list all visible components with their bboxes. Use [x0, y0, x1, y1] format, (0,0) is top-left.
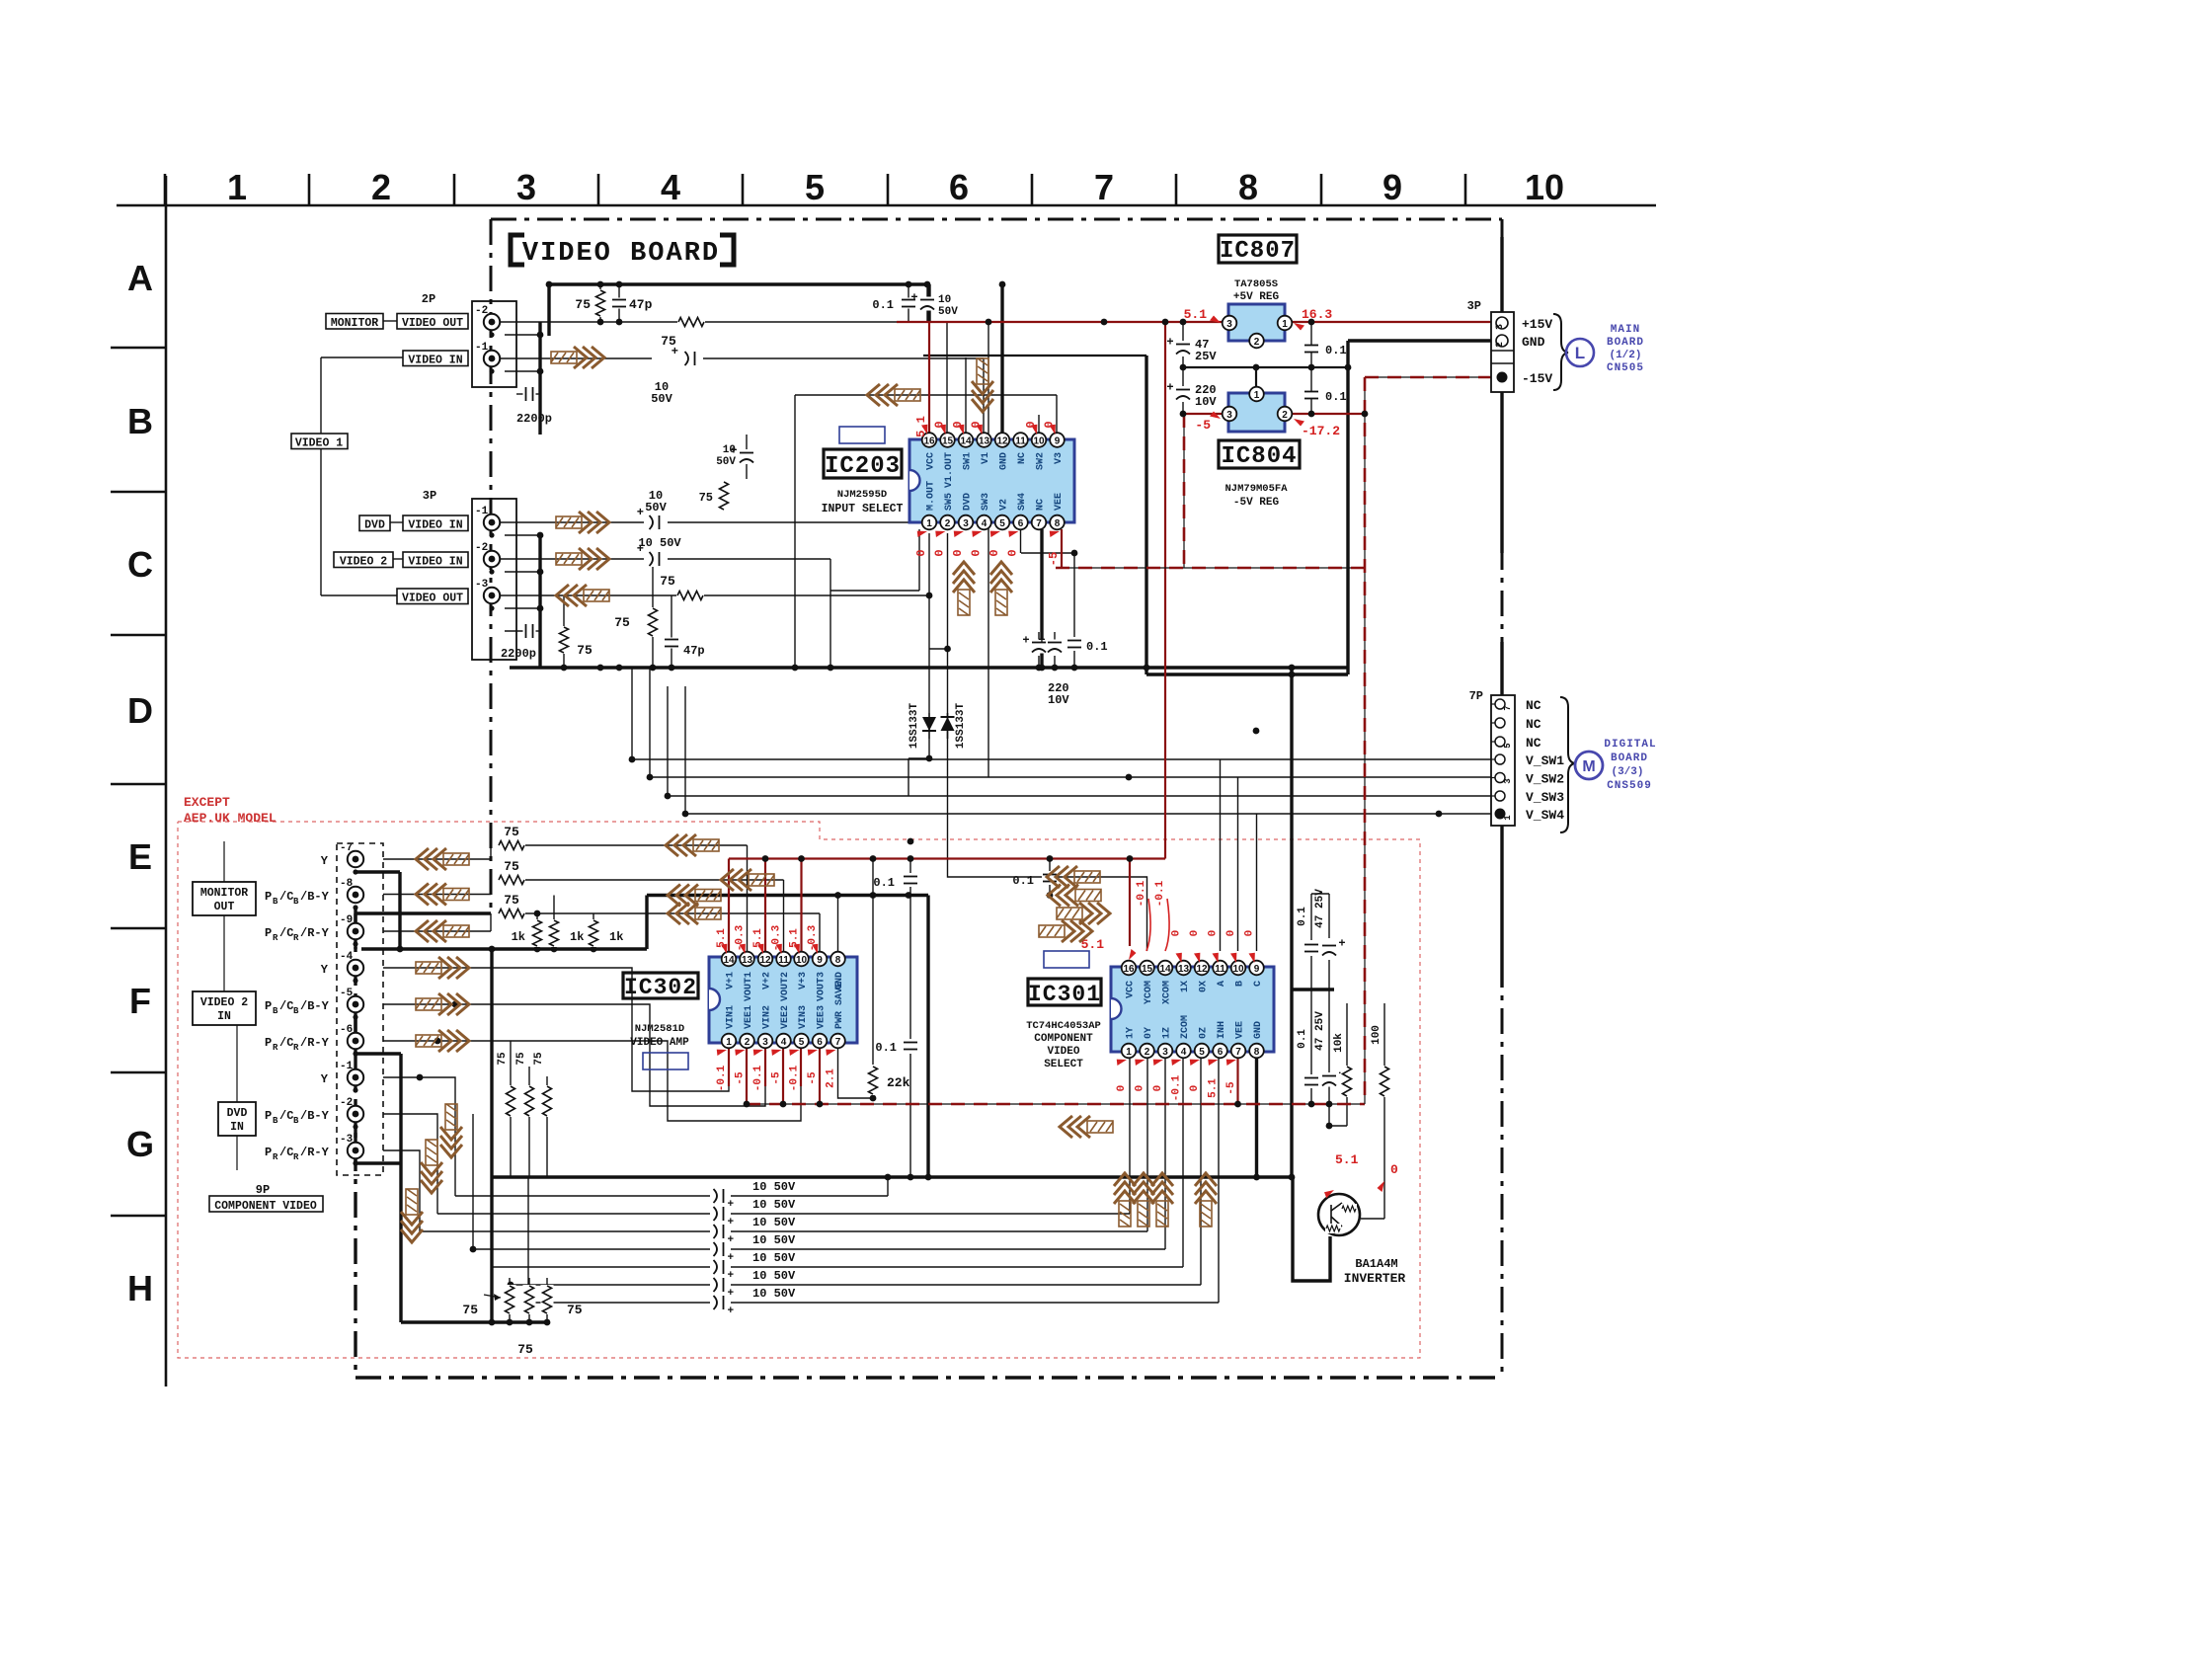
svg-text:5: 5 [1199, 1047, 1205, 1058]
svg-text:10 50V: 10 50V [752, 1198, 796, 1212]
thick x1308 drop [1290, 668, 1293, 1177]
svg-text:Y: Y [321, 854, 329, 868]
svg-text:1k: 1k [570, 930, 584, 944]
red 5.1 bus vertical x1180 [1164, 322, 1166, 859]
svg-text:C: C [127, 544, 153, 585]
resistor 75 (A4) [594, 289, 607, 317]
resistor 75 B4 [718, 481, 731, 511]
signal arrow video in [551, 347, 604, 368]
svg-text:V_SW2: V_SW2 [1526, 772, 1564, 787]
svg-text:BA1A4M: BA1A4M [1355, 1257, 1397, 1271]
resistor 75 x661 [647, 607, 660, 637]
svg-text:V_SW1: V_SW1 [1526, 753, 1564, 768]
wire 0.1 caps x922 [909, 859, 911, 874]
signal arrow IC203 left [867, 384, 920, 406]
signal arrow video out C [556, 585, 609, 606]
IC203 pins bottom row 1-8 [922, 515, 937, 530]
svg-text:NC: NC [1017, 452, 1028, 464]
wire IC203 pin feeds top [946, 322, 948, 433]
svg-text:IC302: IC302 [624, 975, 697, 1000]
svg-text:0.1: 0.1 [1297, 907, 1308, 926]
svg-text:11: 11 [778, 955, 789, 966]
capacitor 0.1 IC302 bottom [903, 1041, 918, 1052]
svg-text:75: 75 [699, 491, 713, 505]
svg-text:6: 6 [1018, 518, 1024, 529]
jack dvd video in [484, 515, 500, 530]
svg-text:-7: -7 [340, 842, 353, 854]
svg-text:2: 2 [1282, 410, 1288, 421]
wire monitor-videoout label link [383, 320, 397, 322]
svg-text:4: 4 [661, 167, 680, 207]
svg-text:NJM2581D: NJM2581D [635, 1023, 684, 1035]
svg-text:0: 0 [933, 549, 947, 556]
IC301 pins bottom row 1-8 [1122, 1044, 1137, 1059]
wire D-region bus 3 V_SW3 [668, 686, 1497, 796]
video board border left lower [354, 913, 356, 1378]
label VIDEO OUT box C [397, 589, 468, 604]
svg-text:VIDEO AMP: VIDEO AMP [630, 1037, 689, 1049]
IC301 label box [1028, 979, 1101, 1005]
svg-text:VEE2: VEE2 [780, 1005, 791, 1029]
svg-text:10 50V: 10 50V [752, 1269, 796, 1283]
maroon -5 dashed wire y575 [1056, 567, 1365, 569]
svg-text:1SS133T: 1SS133T [908, 703, 920, 750]
svg-text:/C: /C [279, 926, 293, 940]
IC301 component video select IC body [1111, 967, 1274, 1052]
svg-text:0.1: 0.1 [873, 876, 895, 890]
wire long vertical x1001 [987, 322, 989, 777]
signal arrow thick gnd run [668, 885, 721, 907]
svg-text:SW3: SW3 [981, 493, 991, 511]
svg-text:75: 75 [462, 1303, 478, 1317]
right column capacitor 47 25V lower [1321, 1073, 1337, 1087]
svg-text:COMPONENT: COMPONENT [1034, 1033, 1093, 1045]
maroon IC203 pin8 -5 [1061, 529, 1063, 568]
signal arrows dvd in rows vertical [421, 1140, 442, 1193]
signal arrow IC203 V1 feed [972, 358, 993, 412]
svg-text:R: R [293, 1043, 299, 1053]
svg-text:-6: -6 [340, 1024, 353, 1036]
svg-text:B: B [273, 1006, 278, 1016]
thick 3P connector stems [1500, 237, 1503, 312]
svg-text:P: P [265, 1146, 272, 1159]
IC203 pins top row 16-9 [922, 433, 937, 447]
svg-text:6: 6 [949, 167, 969, 207]
svg-text:-5: -5 [340, 988, 354, 999]
svg-text:0.1: 0.1 [1325, 390, 1347, 404]
svg-text:10k: 10k [1333, 1033, 1345, 1053]
svg-text:/C: /C [279, 1146, 293, 1159]
svg-text:-15V: -15V [1522, 371, 1552, 386]
svg-text:50V: 50V [651, 392, 672, 406]
red VCC drop IC301 x1144 [1129, 859, 1131, 947]
svg-text:5.1: 5.1 [1184, 307, 1208, 322]
svg-text:8: 8 [835, 955, 841, 966]
component video group link lines [223, 841, 225, 882]
svg-text:10: 10 [1232, 964, 1244, 975]
svg-text:/R-Y: /R-Y [300, 1146, 330, 1159]
svg-text:GND: GND [999, 452, 1010, 470]
svg-text:IC804: IC804 [1221, 443, 1297, 470]
IC301 aux rect [1044, 951, 1089, 968]
jack component video -4 [348, 960, 363, 976]
svg-text:-5: -5 [807, 1071, 819, 1085]
svg-text:2: 2 [745, 1037, 750, 1048]
wire video2 in rows F [383, 968, 729, 1091]
IC301 pins top row 16-9 [1122, 961, 1137, 976]
svg-text:+5V REG: +5V REG [1233, 291, 1280, 303]
svg-text:R: R [273, 933, 278, 943]
svg-text:7: 7 [835, 1037, 841, 1048]
EXCEPT AEP.UK MODEL region border [178, 822, 1420, 1358]
capacitor 47p x680 [664, 638, 679, 649]
svg-text:+: + [1038, 634, 1045, 648]
svg-text:VCC: VCC [1126, 981, 1137, 998]
wire video1 net [321, 356, 403, 358]
svg-text:3: 3 [1503, 778, 1513, 783]
CNS509 pin V_SW4 [1495, 809, 1506, 820]
svg-text:D: D [127, 690, 153, 731]
video board border jog [355, 911, 491, 914]
capacitor 2200p (C3) [523, 623, 536, 639]
svg-text:-3: -3 [475, 579, 489, 591]
svg-text:0.1: 0.1 [875, 1041, 897, 1055]
svg-text:DVD: DVD [963, 493, 974, 511]
svg-text:15: 15 [1142, 964, 1153, 975]
capacitor 47 25V (IC807 in) [1175, 342, 1191, 356]
jack component video -1 [348, 1069, 363, 1085]
svg-text:DVD: DVD [364, 519, 385, 532]
resistor 75 video out row [676, 590, 704, 602]
label VIDEO 2 box [334, 552, 393, 568]
svg-text:10: 10 [1525, 167, 1564, 207]
wire 0.1 cap x1063 [1049, 859, 1051, 872]
svg-text:-4: -4 [340, 951, 354, 963]
svg-text:VIDEO 1: VIDEO 1 [295, 437, 343, 450]
signal arrows monitor out rows [416, 848, 469, 870]
svg-text:10V: 10V [1195, 395, 1217, 409]
svg-text:-1: -1 [475, 506, 489, 517]
svg-text:B: B [127, 401, 153, 441]
wire caps to bus top [908, 284, 909, 322]
svg-text:10 50V: 10 50V [752, 1233, 796, 1247]
svg-text:5: 5 [799, 1037, 805, 1048]
svg-text:6: 6 [817, 1037, 823, 1048]
svg-text:-8: -8 [340, 878, 354, 890]
svg-text:-5: -5 [771, 1071, 783, 1085]
right column capacitor 47 25V upper [1321, 943, 1337, 957]
svg-text:0: 0 [1390, 1162, 1398, 1177]
svg-text:0Z: 0Z [1199, 1027, 1210, 1039]
svg-text:0: 0 [1006, 549, 1020, 556]
svg-text:B: B [273, 1116, 278, 1126]
svg-text:CN505: CN505 [1607, 362, 1644, 374]
svg-text:+: + [728, 1252, 735, 1264]
ruler column ticks [164, 174, 167, 205]
connector CN monitor 2P box [472, 301, 516, 387]
svg-text:VOUT3: VOUT3 [817, 972, 828, 1001]
svg-text:-17.2: -17.2 [1302, 424, 1340, 438]
svg-text:9: 9 [1254, 964, 1260, 975]
IC804 pin1 link [1255, 367, 1257, 387]
svg-text:10 50V: 10 50V [752, 1180, 796, 1194]
svg-text:47 25V: 47 25V [1314, 889, 1326, 928]
svg-text:(3/3): (3/3) [1611, 766, 1643, 778]
svg-text:1: 1 [227, 167, 247, 207]
label VIDEO OUT box [397, 314, 468, 330]
svg-text:9: 9 [817, 955, 823, 966]
wire video2 row [500, 558, 644, 560]
svg-text:VEE1: VEE1 [744, 1005, 754, 1029]
svg-text:75: 75 [517, 1342, 533, 1357]
svg-text:EXCEPT: EXCEPT [184, 795, 230, 810]
svg-text:1k: 1k [609, 930, 623, 944]
wire monitor video out row [500, 321, 677, 323]
svg-text:MAIN: MAIN [1611, 324, 1640, 336]
resistor 75 H x3 [504, 1285, 516, 1314]
svg-text:P: P [265, 926, 272, 940]
main board L circle [1566, 339, 1594, 366]
thick y683 link [1146, 673, 1348, 675]
wire 220uF/0.1 caps above bus [1038, 632, 1040, 640]
wire IC302 pin7 to 22k [838, 1049, 874, 1098]
svg-text:0.1: 0.1 [1086, 640, 1108, 654]
svg-text:75: 75 [575, 297, 591, 312]
thick IC203 gnd pin12 [1000, 284, 1003, 433]
svg-text:1: 1 [926, 518, 932, 529]
svg-text:+: + [1166, 336, 1173, 350]
electrolytic caps 10 50V H rows [714, 1188, 727, 1204]
svg-text:/B-Y: /B-Y [300, 1109, 330, 1123]
wire IC203 bottom pin stubs [918, 529, 920, 591]
signal arrow dvd in [556, 512, 609, 533]
svg-text:V_SW4: V_SW4 [1526, 808, 1564, 823]
svg-text:75: 75 [504, 893, 519, 908]
jack video out C [484, 588, 500, 603]
svg-text:VIN2: VIN2 [762, 1005, 773, 1029]
wire video in row [500, 357, 652, 359]
CNS509 brace [1560, 697, 1575, 832]
svg-text:12: 12 [759, 955, 771, 966]
svg-text:B: B [293, 1116, 299, 1126]
wire dvd-videoin label link [390, 521, 403, 523]
svg-text:9: 9 [1382, 167, 1402, 207]
label VIDEO 2 IN box [193, 991, 256, 1025]
svg-text:50V: 50V [716, 456, 736, 468]
svg-text:10V: 10V [1048, 693, 1069, 707]
svg-text:10: 10 [1033, 436, 1045, 447]
svg-text:14: 14 [1159, 964, 1171, 975]
IC807 +5V regulator body [1228, 304, 1285, 341]
svg-text:IN: IN [217, 1010, 231, 1023]
svg-text:IC203: IC203 [825, 453, 901, 480]
svg-text:IC807: IC807 [1220, 238, 1296, 265]
svg-text:11: 11 [1215, 964, 1225, 975]
svg-text:10: 10 [723, 444, 736, 456]
svg-text:-2: -2 [475, 305, 488, 317]
resistor 1k x3 [531, 919, 544, 947]
video board border right [1501, 219, 1504, 1378]
jack component video -9 [348, 923, 363, 939]
svg-text:47 25V: 47 25V [1314, 1011, 1326, 1051]
svg-text:13: 13 [742, 955, 753, 966]
svg-text:0: 0 [1225, 930, 1237, 937]
right column capacitor 0.1 upper [1303, 943, 1319, 954]
svg-text:IC301: IC301 [1028, 982, 1101, 1007]
svg-text:NC: NC [1526, 698, 1541, 713]
svg-text:V1.OUT: V1.OUT [944, 452, 955, 488]
svg-text:5: 5 [999, 518, 1005, 529]
gnd bus mid y676 [510, 666, 1347, 669]
wire dvd row [500, 521, 644, 523]
wire video out row C [500, 594, 676, 596]
svg-text:1: 1 [1126, 1047, 1132, 1058]
IC807 label box [1219, 235, 1297, 263]
signal arrow video2 in [556, 548, 609, 570]
svg-text:3: 3 [1162, 1047, 1168, 1058]
signal arrows below IC301 [1114, 1173, 1136, 1227]
capacitor 10 50V (B4) [685, 351, 698, 366]
svg-text:MONITOR: MONITOR [331, 317, 378, 330]
diode D202 1SS133T [947, 713, 949, 739]
svg-text:3: 3 [516, 167, 536, 207]
wire 75 resistor drop x661 [652, 559, 654, 668]
svg-text:SW5: SW5 [944, 493, 955, 511]
svg-text:2200p: 2200p [501, 647, 536, 661]
svg-text:/R-Y: /R-Y [300, 1036, 330, 1050]
svg-text:47p: 47p [629, 297, 653, 312]
svg-text:1k: 1k [512, 930, 525, 944]
svg-text:0: 0 [1189, 1085, 1201, 1092]
wire D-region bus 4 V_SW4 [685, 686, 1497, 814]
svg-text:ZCOM: ZCOM [1180, 1015, 1191, 1039]
label MONITOR OUT box [193, 882, 256, 915]
svg-text:PWR SAVE: PWR SAVE [834, 982, 845, 1029]
svg-text:8: 8 [1254, 1047, 1260, 1058]
IC302 pins top row 14-8 [722, 952, 737, 967]
svg-text:VIDEO IN: VIDEO IN [408, 519, 462, 532]
label COMPONENT VIDEO box [209, 1196, 323, 1212]
svg-text:-0.1: -0.1 [1154, 880, 1166, 907]
svg-text:0.1: 0.1 [1297, 1029, 1308, 1049]
svg-text:75: 75 [567, 1303, 583, 1317]
wire D-region bus 1 V_SW1 [632, 668, 1497, 759]
svg-text:+: + [728, 1288, 735, 1300]
svg-text:NC: NC [1526, 736, 1541, 751]
svg-text:+: + [1022, 634, 1029, 648]
svg-text:/B-Y: /B-Y [300, 890, 330, 904]
svg-text:4: 4 [982, 518, 987, 529]
wire monitor out rows E [383, 858, 491, 860]
red IC302 bottom stubs [728, 1049, 730, 1086]
svg-text:V+1: V+1 [726, 972, 737, 990]
svg-text:VIN3: VIN3 [798, 1005, 809, 1029]
svg-text:0: 0 [914, 549, 928, 556]
svg-text:VOUT2: VOUT2 [780, 972, 791, 1001]
svg-text:2P: 2P [422, 292, 435, 306]
svg-text:10 50V: 10 50V [638, 536, 681, 550]
signal arrow IC301 left bottom [1060, 1116, 1113, 1138]
CN505 brace [1553, 314, 1568, 390]
svg-text:NC: NC [1036, 499, 1047, 511]
capacitor 10 50V dvd row [650, 515, 663, 530]
signal arrows staircase [1047, 866, 1100, 888]
thick bottom bus y1339 [401, 1320, 547, 1323]
svg-text:0.1: 0.1 [872, 298, 894, 312]
svg-text:+: + [910, 291, 917, 305]
IC302 label box [623, 973, 698, 998]
svg-text:3: 3 [1226, 410, 1232, 421]
svg-text:0: 0 [1189, 930, 1201, 937]
svg-text:-0.1: -0.1 [1171, 1074, 1183, 1101]
jack component video -6 [348, 1033, 363, 1049]
svg-text:9: 9 [1055, 436, 1061, 447]
wire staircase IC203 to IC301 [948, 533, 1147, 951]
svg-text:8: 8 [1055, 518, 1061, 529]
svg-text:75: 75 [504, 859, 519, 874]
svg-text:10: 10 [938, 294, 951, 306]
IC804 pins [1249, 387, 1264, 402]
svg-text:0: 0 [1116, 1085, 1128, 1092]
jack video2 video in [484, 551, 500, 567]
svg-text:16: 16 [1123, 964, 1135, 975]
svg-text:M.OUT: M.OUT [926, 481, 937, 511]
svg-text:10: 10 [796, 955, 808, 966]
capacitor 220 10V (D6) [1031, 640, 1047, 654]
svg-text:9P: 9P [256, 1183, 270, 1197]
svg-text:2: 2 [1145, 1047, 1150, 1058]
svg-text:+: + [1338, 937, 1345, 951]
capacitor 0.1 IC302 top [903, 875, 918, 886]
svg-text:15: 15 [942, 436, 954, 447]
svg-text:Y: Y [321, 963, 329, 977]
right column thick link [1292, 988, 1334, 990]
svg-text:1Z: 1Z [1162, 1027, 1173, 1039]
label DVD box [359, 515, 390, 531]
svg-text:7: 7 [1503, 705, 1513, 710]
svg-text:DVD: DVD [227, 1107, 248, 1120]
capacitor 10 50V B4-2 [739, 450, 754, 464]
capacitor 2200p (B3) [523, 386, 536, 402]
svg-text:5.1: 5.1 [1208, 1078, 1220, 1098]
svg-text:16.3: 16.3 [1302, 307, 1332, 322]
svg-text:-9: -9 [340, 914, 353, 926]
thick jack3 drop bottom [399, 1054, 402, 1322]
svg-text:-0.1: -0.1 [789, 1065, 801, 1091]
svg-text:2: 2 [371, 167, 391, 207]
CNS509 pin NC [1495, 737, 1505, 747]
svg-text:VEE: VEE [1235, 1021, 1246, 1039]
wire IC302 GND pin8 up [837, 896, 839, 952]
svg-text:(1/2): (1/2) [1609, 350, 1641, 361]
svg-text:A: A [127, 258, 153, 298]
thick x498 drop [490, 949, 493, 1322]
ruler row ticks [111, 347, 166, 350]
+15V red wire [897, 321, 1495, 323]
svg-text:47p: 47p [683, 644, 705, 658]
svg-text:INH: INH [1217, 1021, 1227, 1039]
svg-text:-0.1: -0.1 [716, 1065, 728, 1091]
svg-text:VIDEO 2: VIDEO 2 [340, 556, 387, 569]
svg-text:COMPONENT VIDEO: COMPONENT VIDEO [214, 1200, 317, 1213]
thick 7P connector stems [1500, 642, 1503, 695]
label VIDEO 1 box [291, 434, 348, 449]
svg-text:2: 2 [1495, 342, 1506, 348]
svg-text:+: + [728, 1234, 735, 1246]
CNS509 pin NC [1495, 718, 1505, 728]
svg-text:10 50V: 10 50V [752, 1251, 796, 1265]
svg-text:P: P [265, 1109, 272, 1123]
